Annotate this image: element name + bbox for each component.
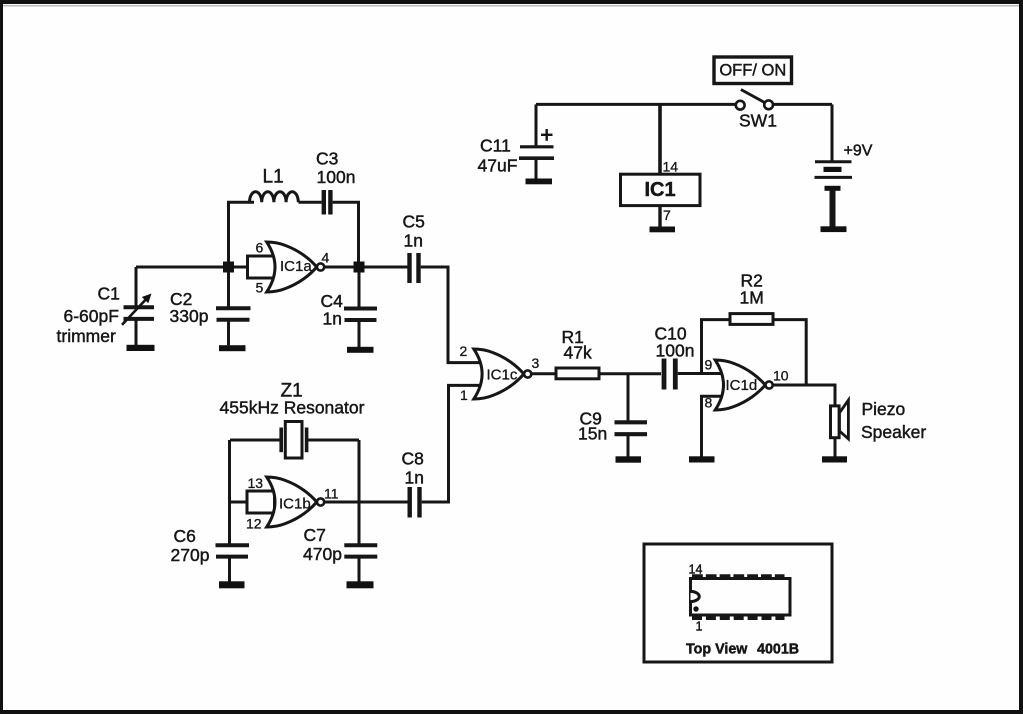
svg-text:6-60pF: 6-60pF	[64, 306, 119, 326]
NOR gate IC1a	[248, 242, 325, 292]
switch SW1	[736, 90, 773, 110]
label C11 47uF	[478, 136, 518, 176]
ground (speaker)	[822, 456, 847, 462]
svg-text:C1: C1	[98, 284, 120, 304]
label C8 1n	[402, 449, 424, 488]
ground (C7)	[347, 581, 374, 588]
capacitor C1 trimmer 6-60pF	[122, 267, 154, 345]
svg-text:14: 14	[689, 563, 703, 577]
svg-text:3: 3	[532, 355, 540, 371]
capacitor C10 100n	[664, 359, 675, 390]
svg-text:C7: C7	[304, 525, 326, 545]
wire: +9V supply bus	[536, 103, 736, 106]
capacitor C9 15n	[615, 374, 648, 457]
svg-text:1n: 1n	[405, 468, 424, 488]
OFF/ON label box	[714, 57, 792, 84]
svg-text:C5: C5	[403, 212, 425, 232]
svg-text:9: 9	[705, 357, 713, 373]
svg-text:270p: 270p	[171, 545, 210, 565]
wire: loop top right + right leg	[333, 202, 359, 261]
border frame top	[0, 0, 1023, 4]
svg-text:Piezo: Piezo	[862, 399, 906, 419]
svg-text:IC1b: IC1b	[279, 496, 311, 513]
label Piezo Speaker	[861, 399, 926, 442]
resonator Z1	[230, 422, 359, 459]
label C10 100n	[655, 324, 695, 361]
ground (C2)	[219, 345, 246, 351]
svg-text:10: 10	[773, 368, 789, 384]
svg-text:Top View: Top View	[686, 642, 748, 658]
wire: IC1 supply drop pin14	[658, 104, 662, 174]
wire: loop top left	[227, 201, 254, 204]
label R2 1M	[740, 271, 764, 308]
wire: IC1d pin8 to ground	[702, 396, 723, 456]
svg-text:14: 14	[663, 159, 679, 175]
svg-text:330p: 330p	[170, 306, 209, 326]
svg-text:455kHz Resonator: 455kHz Resonator	[220, 398, 365, 418]
label C2 330p	[170, 289, 209, 326]
wire: resonator left rail down	[228, 440, 231, 546]
capacitor C5 1n	[410, 253, 419, 283]
label C1 6-60pF trimmer	[57, 284, 120, 347]
NOR gate IC1d	[715, 360, 773, 410]
svg-text:C3: C3	[316, 149, 338, 169]
svg-text:1n: 1n	[323, 309, 342, 329]
resistor R2 1M	[730, 314, 773, 325]
label C7 470p	[303, 525, 342, 564]
svg-text:OFF/ ON: OFF/ ON	[719, 62, 786, 80]
svg-text:11: 11	[324, 486, 339, 502]
svg-text:C8: C8	[402, 449, 424, 469]
border frame bottom	[0, 710, 1023, 714]
battery +9V	[815, 162, 853, 227]
wire: resonator right rail down	[358, 440, 361, 546]
label C5 1n	[403, 212, 425, 251]
wire: C8 to IC1c pin1	[422, 385, 481, 502]
svg-text:+9V: +9V	[844, 143, 873, 160]
label Top View 4001B	[686, 642, 799, 658]
ground (battery)	[821, 226, 847, 232]
svg-text:1n: 1n	[404, 231, 423, 251]
capacitor C11 47uF	[519, 104, 554, 178]
node junction at C2/IC1a input	[223, 262, 234, 273]
wire: IC1 ground stub	[658, 206, 661, 227]
piezo speaker LS1	[831, 400, 849, 456]
svg-text:100n: 100n	[656, 341, 695, 361]
label C9 15n	[578, 409, 607, 444]
svg-text:47uF: 47uF	[478, 156, 518, 176]
wire: IC1a output to node B	[324, 266, 355, 269]
svg-text:IC1a: IC1a	[280, 258, 312, 275]
svg-text:6: 6	[256, 240, 264, 256]
svg-text:1M: 1M	[740, 288, 764, 308]
svg-text:5: 5	[256, 280, 264, 296]
wire: node B to C5	[364, 266, 408, 269]
DIP body 4001B	[691, 579, 791, 616]
svg-text:SW1: SW1	[739, 111, 777, 131]
node junction B	[354, 262, 365, 273]
wire: C5 to IC1c pin2	[421, 267, 481, 363]
border frame right	[1019, 0, 1023, 714]
DIP pins bottom row	[692, 614, 785, 620]
wire: C10 to IC1d pin9	[678, 372, 722, 375]
wire: R2 feedback left leg	[702, 320, 731, 374]
ground (C9)	[616, 456, 642, 462]
svg-text:IC1: IC1	[644, 179, 675, 201]
capacitor C2 330p	[216, 272, 251, 345]
label C3 100n	[316, 149, 355, 188]
label R1 47k	[562, 327, 592, 363]
ground (C1)	[127, 345, 155, 351]
capacitor C3 100n	[324, 190, 331, 215]
svg-text:IC1d: IC1d	[726, 377, 758, 394]
NOR gate IC1b	[247, 477, 324, 527]
svg-text:12: 12	[246, 516, 262, 532]
svg-text:4: 4	[322, 250, 330, 266]
svg-text:Speaker: Speaker	[861, 422, 926, 442]
inset box	[644, 544, 832, 662]
svg-text:1: 1	[696, 620, 703, 634]
DIP notch	[691, 591, 700, 601]
svg-text:13: 13	[248, 475, 264, 491]
wire: IC1c output to R1	[531, 372, 556, 375]
inductor L1	[250, 192, 299, 203]
resistor R1 47k	[556, 368, 599, 379]
wire: IC1d output to speaker	[773, 385, 835, 406]
wire: IC1b input stub	[230, 501, 249, 504]
capacitor C4 1n	[344, 272, 377, 347]
ground (C4)	[347, 347, 374, 353]
wire: loop between L1 and C3	[299, 201, 322, 204]
svg-text:15n: 15n	[578, 424, 607, 444]
wire: R1 to C10	[599, 372, 661, 375]
capacitor C7 470p	[344, 545, 377, 581]
ground (IC1)	[650, 227, 676, 233]
ground (C11)	[526, 179, 553, 185]
svg-text:C11: C11	[480, 136, 511, 156]
DIP pin1 dot	[693, 606, 698, 611]
svg-text:470p: 470p	[303, 544, 342, 564]
capacitor C8 1n	[410, 487, 420, 518]
svg-text:L1: L1	[263, 167, 284, 188]
NOR gate IC1c	[474, 349, 532, 399]
svg-text:IC1c: IC1c	[487, 367, 518, 384]
svg-text:4001B: 4001B	[757, 642, 799, 658]
label C6 270p	[171, 526, 210, 565]
ground (pin8)	[689, 456, 715, 462]
svg-text:2: 2	[460, 343, 468, 359]
wire: switch to battery	[773, 104, 832, 161]
svg-text:100n: 100n	[317, 167, 356, 187]
border frame left	[0, 0, 3, 714]
svg-text:C6: C6	[174, 526, 196, 546]
label C4 1n	[321, 291, 344, 329]
wire: R2 feedback right leg	[773, 320, 806, 385]
capacitor C6 270p	[216, 545, 250, 581]
IC1 box	[621, 174, 701, 205]
DIP pins top row	[692, 574, 785, 580]
svg-text:47k: 47k	[564, 343, 592, 363]
wire: feedback loop left leg	[227, 202, 230, 261]
wire: IC1b output to C8	[324, 501, 408, 504]
svg-text:trimmer: trimmer	[57, 326, 116, 346]
wire: node A horizontal (C1 to IC1a input)	[136, 266, 248, 269]
svg-text:1: 1	[460, 387, 468, 403]
svg-text:7: 7	[663, 207, 671, 223]
ground (C6)	[219, 581, 245, 588]
